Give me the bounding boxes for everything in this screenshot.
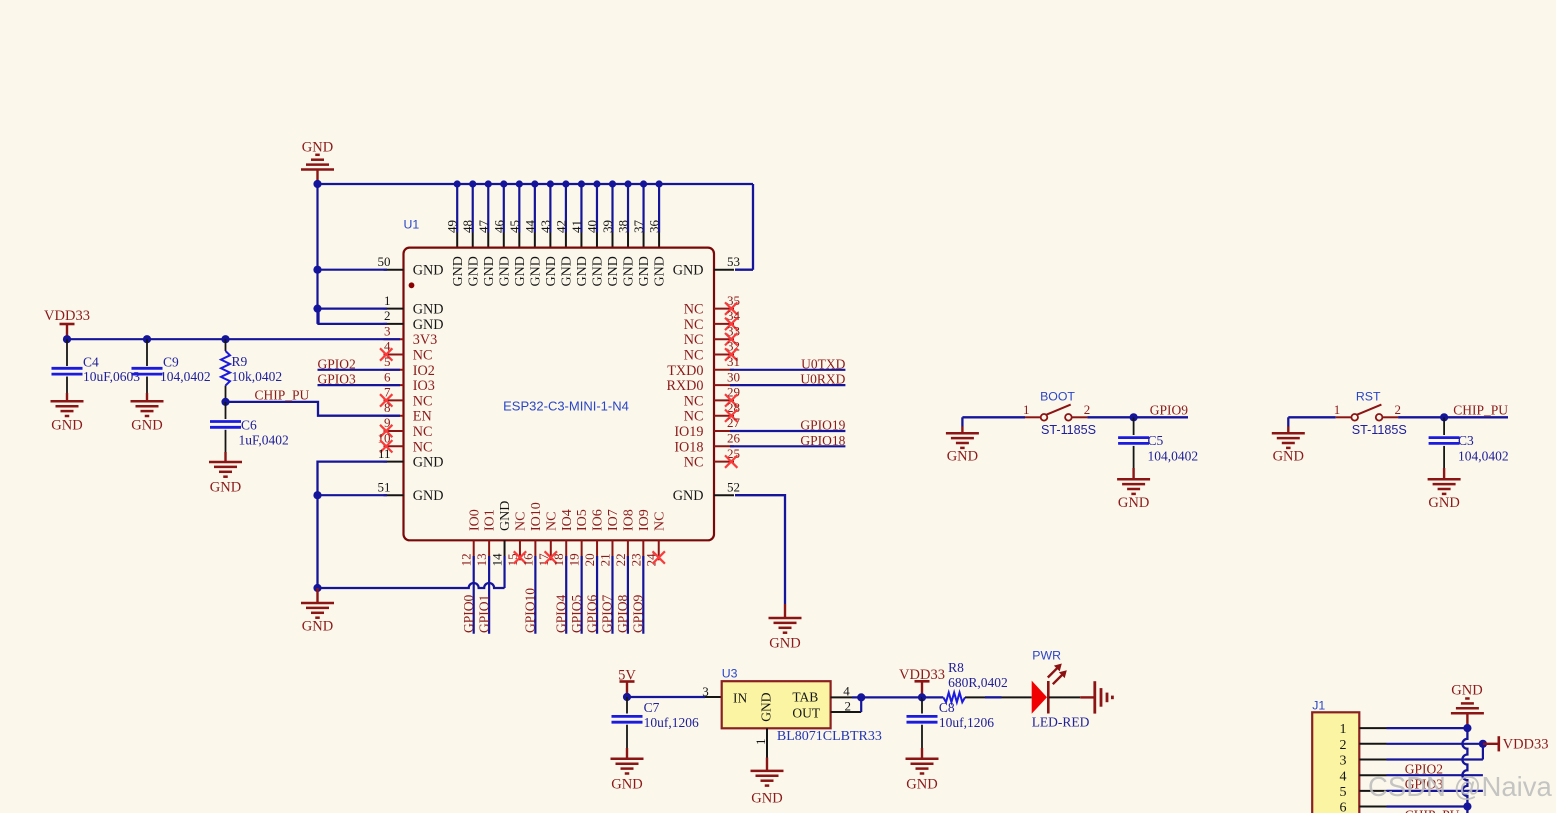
wire net GPIO9 from pin 23 — [631, 556, 646, 634]
svg-text:4: 4 — [843, 683, 850, 698]
svg-text:RXD0: RXD0 — [666, 378, 703, 394]
pin 20 IO6 (U1 bottom) — [582, 509, 606, 566]
pin 31 TXD0 (U1 right) — [667, 354, 740, 379]
svg-text:37: 37 — [631, 220, 646, 234]
svg-text:NC: NC — [413, 439, 433, 455]
wire switch BOOT pin 2 to net GPIO9 — [1087, 402, 1188, 421]
svg-text:NC: NC — [684, 409, 704, 425]
pin 46 GND (U1 top) — [491, 180, 512, 286]
svg-text:IO6: IO6 — [591, 509, 606, 531]
capacitor C6 1uF,0402 — [210, 402, 289, 452]
wire pin 1 to GND rail — [313, 305, 387, 313]
svg-text:51: 51 — [378, 479, 391, 494]
wire ground to switch BOOT pin 1 — [962, 417, 1025, 426]
ground GND (below C4) — [51, 393, 84, 434]
svg-text:GND: GND — [413, 317, 444, 333]
wire pin 11 to GND rail lower segment — [318, 462, 388, 588]
wire pin 50 to GND rail — [313, 266, 387, 274]
pin 32 NC (U1 right) — [684, 339, 740, 364]
pin 50 GND (U1 left) — [378, 254, 444, 279]
svg-text:14: 14 — [490, 553, 505, 567]
svg-text:IO9: IO9 — [637, 509, 652, 531]
svg-text:13: 13 — [474, 553, 489, 566]
wire pin 52 to ground — [735, 495, 785, 604]
pin 47 GND (U1 top) — [476, 180, 497, 286]
pin 6 (J1) — [1340, 801, 1387, 813]
svg-text:49: 49 — [445, 220, 460, 233]
svg-text:GPIO1: GPIO1 — [476, 595, 491, 633]
svg-text:GPIO6: GPIO6 — [584, 594, 599, 633]
svg-text:IO3: IO3 — [413, 378, 435, 394]
pin 25 NC (U1 right) — [684, 446, 740, 471]
pin 53 GND (U1 right) — [673, 254, 740, 279]
ground GND (below C8) — [906, 748, 939, 793]
ic U1 ESP32-C3-MINI-1-N4 body — [404, 217, 715, 540]
wire net U0TXD from pin 31 TXD0 — [730, 356, 846, 371]
svg-text:CHIP_PU: CHIP_PU — [1453, 402, 1508, 417]
svg-text:VDD33: VDD33 — [44, 308, 90, 324]
pin 30 RXD0 (U1 right) — [666, 369, 740, 394]
svg-text:GND: GND — [606, 256, 621, 286]
svg-text:GPIO3: GPIO3 — [318, 372, 357, 387]
svg-text:GND: GND — [466, 256, 481, 286]
svg-text:4: 4 — [1340, 769, 1347, 784]
svg-text:41: 41 — [569, 220, 584, 233]
wire top bus right drop to pin 53 — [735, 184, 753, 270]
pin 4 TAB (U3 right) wire to VDD33 node — [831, 683, 922, 701]
svg-text:GND: GND — [653, 256, 668, 286]
svg-text:GND: GND — [1118, 495, 1149, 511]
svg-text:C7: C7 — [644, 700, 660, 715]
svg-text:ESP32-C3-MINI-1-N4: ESP32-C3-MINI-1-N4 — [503, 399, 629, 414]
svg-text:GPIO0: GPIO0 — [461, 594, 476, 633]
wire net CHIP_PU from J1 pin 6 — [1387, 807, 1468, 813]
led PWR LED-RED — [1032, 649, 1090, 730]
svg-text:PWR: PWR — [1032, 649, 1061, 663]
svg-text:1: 1 — [1023, 402, 1030, 417]
svg-text:NC: NC — [684, 302, 704, 318]
svg-text:GPIO19: GPIO19 — [800, 418, 845, 433]
pin 44 GND (U1 top) — [522, 180, 543, 286]
pin 26 IO18 (U1 right) — [674, 431, 740, 456]
svg-text:5V: 5V — [618, 668, 636, 684]
pin 4 NC (U1 left) — [380, 339, 433, 364]
ground (rotated, right of LED) — [1095, 681, 1113, 713]
pin 10 NC (U1 left) — [378, 431, 433, 456]
svg-text:104,0402: 104,0402 — [160, 369, 211, 384]
svg-text:2: 2 — [1084, 402, 1091, 417]
svg-text:CSDN @Naiva: CSDN @Naiva — [1368, 771, 1552, 802]
capacitor C9 104,0402 — [132, 339, 211, 393]
ground GND (below C7) — [611, 748, 644, 793]
svg-text:12: 12 — [459, 553, 474, 566]
pin 43 GND (U1 top) — [538, 180, 559, 286]
pin 2 (J1) — [1340, 738, 1387, 753]
wire GND rail upper segment — [316, 184, 318, 324]
svg-text:47: 47 — [476, 220, 491, 234]
resistor R9 10k,0402 — [221, 339, 282, 402]
svg-text:NC: NC — [684, 348, 704, 364]
svg-text:IO5: IO5 — [575, 509, 590, 531]
svg-text:GND: GND — [759, 692, 774, 721]
capacitor C4 10uF,0603 — [52, 339, 141, 393]
pin 33 NC (U1 right) — [684, 323, 740, 348]
svg-text:NC: NC — [413, 393, 433, 409]
svg-text:36: 36 — [647, 220, 662, 234]
pin 39 GND (U1 top) — [600, 180, 621, 286]
pin 3 3V3 (U1 left) — [384, 323, 438, 348]
wire switch RST pin 2 to net CHIP_PU — [1398, 402, 1508, 421]
svg-text:10k,0402: 10k,0402 — [232, 369, 283, 384]
svg-text:2: 2 — [384, 308, 391, 323]
svg-text:U3: U3 — [722, 667, 738, 681]
svg-text:1: 1 — [1334, 402, 1341, 417]
svg-text:NC: NC — [684, 317, 704, 333]
ground GND (below C6) — [209, 452, 242, 496]
wire J1 pin 3 riser to VDD33 node — [1387, 744, 1483, 760]
pin 2 GND (U1 left) — [384, 308, 444, 333]
pin 52 GND (U1 right) — [673, 479, 740, 504]
pin 34 NC (U1 right) — [684, 308, 741, 333]
svg-text:10uF,0603: 10uF,0603 — [83, 369, 140, 384]
pin 1 (J1) — [1340, 722, 1387, 737]
svg-text:ST-1185S: ST-1185S — [1352, 423, 1407, 437]
svg-text:31: 31 — [727, 354, 740, 369]
pin 28 NC (U1 right) — [684, 400, 740, 425]
wire J1 pin 2 to VDD33 — [1387, 740, 1488, 748]
svg-text:5: 5 — [1340, 785, 1347, 800]
svg-text:26: 26 — [727, 431, 741, 446]
svg-text:GND: GND — [575, 256, 590, 286]
wire net GPIO19 from pin 27 IO19 — [730, 418, 846, 433]
pin 29 NC (U1 right) — [684, 385, 740, 410]
svg-text:52: 52 — [727, 479, 740, 494]
svg-text:GND: GND — [413, 302, 444, 318]
pin 8 EN (U1 left) — [384, 400, 432, 425]
svg-text:C5: C5 — [1148, 433, 1164, 448]
pin 12 IO0 (U1 bottom) — [459, 509, 483, 566]
svg-text:IO10: IO10 — [529, 502, 544, 531]
svg-text:GND: GND — [673, 263, 704, 279]
svg-text:3: 3 — [702, 684, 709, 699]
ground GND (top-left, feeds top GND bus) — [301, 140, 334, 185]
pin 2 OUT (U3 right) riser to node — [831, 697, 862, 713]
wire J1 GND vertical with hops — [1462, 728, 1471, 813]
svg-text:TXD0: TXD0 — [667, 363, 703, 379]
svg-text:J1: J1 — [1312, 698, 1325, 712]
svg-text:20: 20 — [582, 553, 597, 566]
svg-text:42: 42 — [553, 220, 568, 233]
svg-text:NC: NC — [413, 424, 433, 440]
svg-text:C4: C4 — [83, 355, 99, 370]
svg-text:IO8: IO8 — [622, 509, 637, 531]
svg-text:GND: GND — [302, 140, 333, 156]
svg-text:10uf,1206: 10uf,1206 — [939, 715, 994, 730]
pin 49 GND (U1 top) — [445, 180, 466, 286]
regulator U3 BL8071CLBTR33 body — [722, 667, 882, 744]
svg-text:40: 40 — [584, 220, 599, 233]
switch BOOT ST-1185S — [1023, 390, 1096, 437]
svg-text:GND: GND — [51, 418, 82, 434]
svg-text:GND: GND — [413, 455, 444, 471]
svg-text:GND: GND — [591, 256, 606, 286]
svg-text:1: 1 — [753, 739, 768, 746]
wire LED cathode to ground — [1049, 696, 1095, 698]
pin 17 NC (U1 bottom) — [536, 512, 560, 567]
svg-text:1: 1 — [1340, 722, 1347, 737]
pin 22 IO8 (U1 bottom) — [613, 509, 637, 566]
svg-text:GND: GND — [498, 501, 513, 531]
svg-text:RST: RST — [1356, 390, 1381, 404]
pin 23 IO9 (U1 bottom) — [628, 509, 652, 566]
svg-text:ST-1185S: ST-1185S — [1041, 423, 1096, 437]
svg-text:23: 23 — [628, 553, 643, 566]
svg-text:CHIP_PU: CHIP_PU — [255, 388, 310, 403]
svg-text:GND: GND — [769, 636, 800, 652]
pin 24 NC (U1 bottom) — [644, 512, 668, 567]
svg-text:NC: NC — [684, 455, 704, 471]
svg-text:GPIO10: GPIO10 — [523, 588, 538, 633]
capacitor C3 104,0402 — [1429, 417, 1509, 468]
wire GND rail to pin 14 with hops over pins 12,13 — [313, 583, 504, 592]
svg-text:IO19: IO19 — [674, 424, 703, 440]
ground GND (below C3) — [1428, 468, 1461, 511]
svg-text:30: 30 — [727, 369, 740, 384]
ground GND (below U3) — [751, 758, 784, 807]
ground GND (left of BOOT) — [946, 427, 979, 465]
svg-text:IO0: IO0 — [467, 509, 482, 531]
svg-text:GND: GND — [413, 263, 444, 279]
svg-text:GND: GND — [1428, 495, 1459, 511]
svg-text:GND: GND — [210, 480, 241, 496]
svg-text:46: 46 — [491, 219, 506, 233]
svg-text:C9: C9 — [163, 355, 179, 370]
svg-text:3V3: 3V3 — [413, 332, 437, 348]
svg-text:GND: GND — [513, 256, 528, 286]
pin 5 (J1) — [1340, 785, 1387, 800]
svg-text:IO1: IO1 — [483, 509, 498, 531]
svg-text:GND: GND — [1451, 682, 1482, 698]
pin 1 GND (U3 bottom) — [753, 728, 768, 757]
svg-text:GND: GND — [451, 256, 466, 286]
svg-text:43: 43 — [538, 220, 553, 233]
svg-text:16: 16 — [520, 553, 535, 567]
svg-text:GND: GND — [497, 256, 512, 286]
wire pin 14 GND drop — [503, 556, 505, 588]
wire net GPIO2 to pin 5 IO2 — [318, 356, 401, 371]
svg-text:6: 6 — [1340, 801, 1347, 813]
pin 13 IO1 (U1 bottom) — [474, 509, 498, 566]
switch RST ST-1185S — [1334, 390, 1407, 437]
svg-text:U0RXD: U0RXD — [800, 372, 845, 387]
svg-text:GND: GND — [751, 790, 782, 806]
power flag VDD33 (left) — [44, 308, 90, 339]
svg-text:NC: NC — [413, 348, 433, 364]
svg-text:5: 5 — [384, 354, 391, 369]
pin 7 NC (U1 left) — [380, 385, 433, 410]
svg-text:48: 48 — [460, 220, 475, 233]
pin 16 IO10 (U1 bottom) — [520, 502, 544, 566]
svg-text:GND: GND — [1273, 448, 1304, 464]
wire net GPIO7 from pin 21 — [600, 556, 615, 634]
svg-text:6: 6 — [384, 369, 391, 384]
svg-text:3: 3 — [384, 323, 391, 338]
svg-text:GND: GND — [637, 256, 652, 286]
svg-text:27: 27 — [727, 415, 741, 430]
pin 21 IO7 (U1 bottom) — [597, 509, 621, 566]
power flag 5V — [618, 668, 636, 698]
wire R8 to LED — [965, 696, 1032, 698]
pin 35 NC (U1 right) — [684, 293, 740, 318]
svg-text:C6: C6 — [241, 418, 257, 433]
wire 5V to U3 IN pin 3 — [623, 684, 722, 701]
svg-text:GND: GND — [302, 619, 333, 635]
pin 3 (J1) — [1340, 754, 1387, 769]
pin 37 GND (U1 top) — [631, 180, 652, 286]
wire net GPIO8 from pin 22 — [615, 556, 630, 634]
svg-text:R9: R9 — [232, 354, 248, 369]
pin 41 GND (U1 top) — [569, 180, 590, 286]
svg-text:44: 44 — [522, 220, 537, 234]
power flag VDD33 (J1, rotated) — [1483, 736, 1549, 752]
svg-text:TAB: TAB — [792, 690, 818, 705]
svg-text:GND: GND — [611, 777, 642, 793]
wire pin 51 to GND rail — [313, 491, 387, 499]
ground GND (below C5) — [1117, 468, 1150, 511]
wire VDD33 rail to pin 3 (3V3) — [63, 335, 400, 343]
svg-text:38: 38 — [616, 220, 631, 233]
pin 40 GND (U1 top) — [584, 180, 605, 286]
wire net GPIO6 from pin 20 — [584, 556, 599, 634]
svg-text:GPIO8: GPIO8 — [615, 594, 630, 633]
wire net GPIO3 from J1 pin 5 — [1387, 777, 1483, 792]
svg-text:IO4: IO4 — [560, 509, 575, 531]
svg-text:GPIO9: GPIO9 — [1150, 402, 1189, 417]
pin 45 GND (U1 top) — [507, 180, 528, 286]
svg-text:NC: NC — [684, 332, 704, 348]
wire net GPIO3 to pin 6 IO3 — [318, 372, 401, 387]
svg-text:2: 2 — [1340, 738, 1347, 753]
ground GND (above J1 net) — [1451, 682, 1484, 728]
pin 18 IO4 (U1 bottom) — [551, 509, 575, 566]
pin 38 GND (U1 top) — [616, 180, 637, 286]
svg-text:R8: R8 — [948, 660, 964, 675]
resistor R8 680R,0402 — [922, 660, 1008, 702]
svg-text:45: 45 — [507, 220, 522, 233]
pin 14 GND (U1 bottom) — [490, 501, 514, 567]
svg-text:U0TXD: U0TXD — [801, 356, 845, 371]
svg-text:GND: GND — [906, 777, 937, 793]
svg-text:BL8071CLBTR33: BL8071CLBTR33 — [777, 729, 882, 744]
pin 27 IO19 (U1 right) — [674, 415, 740, 440]
pin 4 (J1) — [1340, 769, 1387, 784]
pin 11 GND (U1 left) — [378, 446, 444, 471]
pin 48 GND (U1 top) — [460, 180, 481, 286]
wire top GND bus horizontal — [313, 180, 753, 188]
pin 9 NC (U1 left) — [380, 415, 433, 440]
svg-text:GPIO7: GPIO7 — [600, 594, 615, 633]
svg-text:GPIO5: GPIO5 — [569, 594, 584, 633]
svg-text:18: 18 — [551, 553, 566, 566]
svg-text:19: 19 — [567, 553, 582, 566]
ground GND (below pin 52) — [769, 604, 802, 652]
svg-text:680R,0402: 680R,0402 — [948, 675, 1008, 690]
wire net CHIP_PU from R9 to pin 8 EN — [221, 388, 400, 416]
pin 51 GND (U1 left) — [378, 479, 444, 504]
svg-text:NC: NC — [652, 512, 667, 531]
connector J1 body — [1312, 698, 1359, 813]
svg-text:NC: NC — [544, 512, 559, 531]
svg-text:NC: NC — [514, 512, 529, 531]
svg-text:GPIO4: GPIO4 — [553, 594, 568, 633]
svg-text:1: 1 — [384, 293, 391, 308]
svg-text:1uF,0402: 1uF,0402 — [239, 433, 289, 448]
wire J1 pin 1 to GND — [1387, 724, 1472, 732]
svg-text:11: 11 — [378, 446, 391, 461]
wire net GPIO1 from pin 13 — [476, 556, 491, 634]
svg-text:50: 50 — [378, 254, 391, 269]
pin 15 NC (U1 bottom) — [505, 512, 529, 567]
svg-text:39: 39 — [600, 220, 615, 233]
svg-text:104,0402: 104,0402 — [1148, 449, 1199, 464]
svg-text:2: 2 — [1395, 402, 1402, 417]
watermark CSDN @Naiva — [1368, 771, 1552, 802]
svg-text:GPIO18: GPIO18 — [800, 433, 845, 448]
svg-text:C3: C3 — [1458, 433, 1474, 448]
svg-text:NC: NC — [684, 393, 704, 409]
wire net GPIO4 from pin 18 — [553, 556, 568, 634]
svg-text:GPIO9: GPIO9 — [631, 594, 646, 633]
svg-text:8: 8 — [384, 400, 391, 415]
svg-text:2: 2 — [845, 698, 852, 713]
pin 19 IO5 (U1 bottom) — [567, 509, 591, 566]
svg-text:104,0402: 104,0402 — [1458, 449, 1509, 464]
ground GND (left of RST) — [1272, 427, 1305, 465]
pin 1 GND (U1 left) — [384, 293, 444, 318]
wire net U0RXD from pin 30 RXD0 — [730, 372, 846, 387]
svg-text:GND: GND — [544, 256, 559, 286]
svg-text:U1: U1 — [404, 217, 420, 231]
pin 6 IO3 (U1 left) — [384, 369, 435, 394]
pin 5 IO2 (U1 left) — [384, 354, 435, 379]
svg-text:IN: IN — [733, 690, 747, 705]
svg-text:GND: GND — [528, 256, 543, 286]
wire net GPIO10 from pin 16 — [523, 556, 538, 634]
svg-text:GND: GND — [413, 488, 444, 504]
svg-text:IO2: IO2 — [413, 363, 435, 379]
svg-text:LED-RED: LED-RED — [1032, 715, 1090, 730]
svg-text:EN: EN — [413, 409, 432, 425]
svg-text:GND: GND — [947, 448, 978, 464]
svg-text:OUT: OUT — [792, 705, 820, 720]
wire ground to switch RST pin 1 — [1288, 417, 1335, 426]
svg-text:53: 53 — [727, 254, 740, 269]
wire net GPIO2 from J1 pin 4 — [1387, 761, 1483, 776]
wire net GPIO0 from pin 12 — [461, 556, 476, 634]
svg-text:VDD33: VDD33 — [899, 667, 945, 683]
wire net GPIO5 from pin 19 — [569, 556, 584, 634]
svg-text:VDD33: VDD33 — [1503, 736, 1549, 752]
svg-text:GND: GND — [560, 256, 575, 286]
pin 42 GND (U1 top) — [553, 180, 574, 286]
svg-text:22: 22 — [613, 553, 628, 566]
svg-text:GND: GND — [673, 488, 704, 504]
capacitor C5 104,0402 — [1118, 417, 1198, 468]
power flag VDD33 (mid) — [899, 667, 945, 702]
capacitor C7 10uf,1206 — [612, 697, 699, 748]
svg-text:CHIP_PU: CHIP_PU — [1405, 808, 1460, 813]
ground GND (bottom-left rail) — [301, 588, 334, 635]
